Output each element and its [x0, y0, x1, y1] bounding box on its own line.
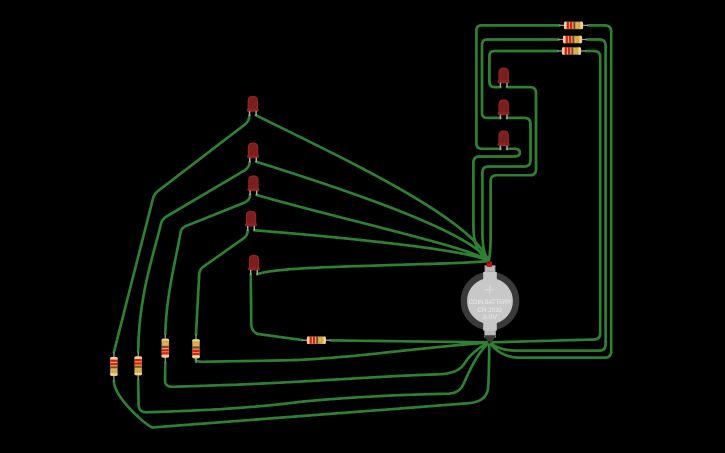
- resistor R8: [557, 47, 586, 55]
- wire W18: resistor R4 bottom to battery - node: [196, 342, 490, 361]
- resistor R3: [161, 334, 169, 362]
- wire W3a: resistor R8 left lead to LED6 cathode: [489, 51, 557, 87]
- resistor R5: [302, 336, 331, 344]
- wire W15: resistor R1 bottom along bottom to battery - node: [114, 342, 489, 427]
- wire W1a: resistor R6 left lead to LED8 cathode: [476, 25, 559, 148]
- resistor R1: [110, 352, 118, 380]
- wire W11: LED3 cathode to resistor R3 top: [165, 195, 250, 334]
- wire W10: LED2 cathode to resistor R2 top: [138, 162, 250, 352]
- wire W3b: LED6 anode down to battery + node: [489, 87, 536, 261]
- wire W2c: resistor R7 right lead around right side to battery - node: [489, 40, 605, 351]
- LED LED2: [247, 143, 259, 162]
- wire W17: resistor R3 bottom along bottom to battery - node: [165, 342, 489, 386]
- wire W1c: resistor R6 right lead around right side to battery - node: [489, 25, 611, 357]
- wire W9: LED1 cathode to resistor R1 top: [114, 115, 250, 352]
- wire W8: LED5 anode diagonal to battery + node: [257, 261, 489, 274]
- wire W16: resistor R2 bottom along bottom to battery - node: [138, 342, 489, 412]
- resistor R2: [134, 352, 142, 380]
- node battery negative: [488, 341, 490, 343]
- wire W13: LED5 cathode down and right to resistor R5 left lead: [251, 274, 302, 340]
- LED LED3: [248, 176, 260, 195]
- wire W2b: LED7 anode down to battery + node: [482, 118, 530, 261]
- LED LED8: [498, 131, 510, 150]
- LED LED5: [248, 255, 260, 274]
- LED LED6: [498, 68, 510, 87]
- svg-text:COIN BATTERY: COIN BATTERY: [469, 299, 511, 306]
- svg-text:CR 2032: CR 2032: [477, 307, 503, 314]
- wire W2a: resistor R7 left lead to LED7 cathode: [482, 40, 559, 118]
- wire W5: LED2 anode diagonal to battery + node: [256, 162, 489, 261]
- wire W3c: resistor R8 right lead around right side to battery - node: [489, 51, 600, 342]
- LED LED1: [247, 96, 259, 115]
- resistor R6: [559, 22, 588, 30]
- svg-text:3.0V: 3.0V: [483, 314, 499, 321]
- wire W6: LED3 anode diagonal to battery + node: [257, 195, 489, 261]
- node battery positive: [488, 262, 490, 264]
- wire W4: LED1 anode diagonal to battery + node: [256, 115, 489, 261]
- wire W7: LED4 anode diagonal to battery + node: [254, 230, 489, 261]
- wire W12: LED4 cathode to resistor R4 top: [196, 230, 248, 334]
- resistor R4: [192, 335, 200, 363]
- wire W14: resistor R5 right lead to battery - node: [331, 340, 489, 342]
- LED LED4: [245, 211, 257, 230]
- LED LED7: [498, 100, 510, 119]
- wire W1b: LED8 anode U-turn down to battery + node: [473, 149, 519, 261]
- resistor R7: [558, 36, 587, 44]
- battery BT1 coin cell CR2032: [464, 261, 516, 342]
